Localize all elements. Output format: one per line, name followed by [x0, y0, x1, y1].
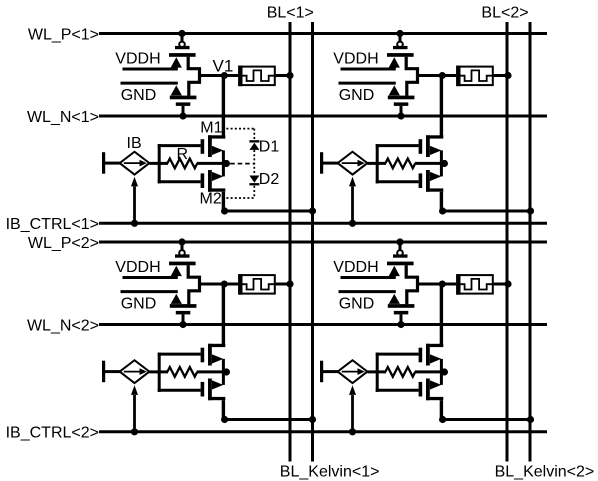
wire M2 drain to BL_Kelvin (R2C2)	[443, 418, 531, 421]
transistor M2 (R2C2)	[419, 372, 444, 401]
wire gate bracket vertical (R2C1)	[158, 353, 161, 392]
svg-text:VDDH: VDDH	[115, 51, 160, 68]
resistor R (R2C2)	[367, 367, 444, 377]
wire gate bracket to M1 gate (R2C2)	[376, 353, 419, 356]
memristor RRAM element (R2C1)	[224, 274, 290, 295]
wire WL_P to PMOS gate (R2C1)	[181, 242, 184, 251]
junction node on BL_Kelvin (R2C2)	[527, 416, 534, 423]
current source IB (R1C1)	[102, 152, 149, 175]
svg-text:WL_P<1>: WL_P<1>	[28, 26, 99, 43]
resistor R (R1C2)	[367, 159, 444, 169]
current source IB (R1C2)	[320, 152, 367, 175]
wire gate bracket to M1 gate (R2C1)	[158, 353, 201, 356]
GND supply wire (R2C1)	[121, 292, 178, 313]
junction node on WL_N (R1C1)	[179, 112, 186, 119]
transistor NMOS pull-down (R1C2)	[388, 85, 415, 106]
wire IB_CTRL to current source (arrow) (R1C2)	[349, 177, 356, 224]
svg-text:WL_N<2>: WL_N<2>	[27, 317, 99, 334]
wire V1 down to M1 drain (R2C1)	[222, 284, 225, 346]
junction node on WL_P (R1C2)	[396, 30, 403, 37]
svg-text:VDDH: VDDH	[333, 259, 378, 276]
wire WL_P to PMOS gate (R1C2)	[399, 34, 402, 43]
node M1/M2 source junction (R2C1)	[223, 368, 230, 375]
svg-text:WL_P<2>: WL_P<2>	[28, 235, 99, 252]
transistor PMOS pull-up (R1C2)	[387, 42, 414, 68]
junction node on WL_N (R2C2)	[397, 321, 404, 328]
wordline IB_CTRL<2>	[6, 425, 547, 442]
wire gate bracket vertical (R1C1)	[158, 144, 161, 183]
transistor PMOS pull-up (R1C1)	[169, 42, 196, 68]
svg-text:BL<1>: BL<1>	[267, 4, 314, 21]
bitline BL<1>	[289, 22, 292, 462]
transistor M2 (R1C2)	[419, 163, 444, 192]
VDDH supply wire (R1C2)	[333, 51, 396, 69]
junction node on BL_Kelvin (R1C1)	[309, 207, 316, 214]
GND supply wire (R1C2)	[339, 83, 396, 104]
svg-text:R: R	[177, 146, 189, 163]
transistor M1 (R2C1)	[201, 344, 226, 373]
wire driver drains to output node (R2C1)	[188, 265, 199, 304]
wire output node to V1 (R2C1)	[200, 283, 225, 286]
wire IB_CTRL to current source (arrow) (R1C1)	[131, 177, 138, 224]
VDDH supply wire (R2C1)	[115, 259, 178, 277]
junction node on WL_P (R2C1)	[178, 238, 185, 245]
wordline WL_N<2>	[27, 317, 547, 334]
wire gate bracket to M1 gate (R1C1)	[158, 144, 201, 147]
current source IB (R2C2)	[320, 360, 367, 383]
svg-text:GND: GND	[339, 296, 375, 313]
wordline WL_P<2>	[28, 235, 547, 252]
wire dotted branch vertical	[253, 129, 255, 198]
node M2 drain (R2C1)	[221, 416, 228, 423]
resistor R (R2C1)	[149, 367, 226, 377]
transistor M1 (R1C2)	[419, 135, 444, 164]
wire M2 drain down (R1C2)	[440, 192, 443, 211]
wire WL_P to PMOS gate (R1C1)	[181, 34, 184, 43]
junction node on BL_Kelvin (R2C1)	[309, 416, 316, 423]
wire driver drains to output node (R1C2)	[406, 57, 417, 96]
wire driver drains to output node (R1C1)	[188, 57, 199, 96]
bitline BL<2>	[506, 22, 509, 462]
transistor M2 (R2C1)	[201, 372, 226, 401]
node M2 drain (R1C2)	[439, 207, 446, 214]
node V1 (R1C1)	[221, 72, 228, 79]
svg-text:GND: GND	[121, 296, 157, 313]
junction node on WL_N (R2C1)	[179, 321, 186, 328]
current source IB (R2C1)	[102, 360, 149, 383]
svg-text:M2: M2	[200, 190, 222, 207]
node V1 (R1C2)	[439, 72, 446, 79]
junction node on IB_CTRL (R1C1)	[131, 220, 138, 227]
wire M2 drain to BL_Kelvin (R2C1)	[225, 418, 313, 421]
wire NMOS gate to WL_N (R1C2)	[400, 106, 403, 116]
junction node memristor-BL (R1C2)	[504, 72, 511, 79]
node M2 drain (R1C1)	[221, 207, 228, 214]
GND supply wire (R2C2)	[339, 292, 396, 313]
wordline WL_N<1>	[27, 109, 547, 126]
wire dotted branch top	[226, 128, 254, 130]
wire M2 drain down (R2C2)	[440, 400, 443, 419]
node M1/M2 source junction (R1C2)	[441, 160, 448, 167]
svg-text:GND: GND	[339, 87, 375, 104]
transistor NMOS pull-down (R2C2)	[388, 294, 415, 315]
node M2 drain (R2C2)	[439, 416, 446, 423]
junction node on WL_P (R2C2)	[396, 238, 403, 245]
wire V1 down to M1 drain (R1C2)	[440, 76, 443, 138]
junction node on WL_P (R1C1)	[178, 30, 185, 37]
wire NMOS gate to WL_N (R2C1)	[182, 314, 185, 324]
wire gate bracket to M2 gate (R2C2)	[376, 389, 419, 392]
wordline IB_CTRL<1>	[6, 216, 547, 233]
wordline WL_P<1>	[28, 26, 547, 43]
wire M2 drain down (R1C1)	[222, 192, 225, 211]
wire M2 drain to BL_Kelvin (R1C1)	[225, 210, 313, 213]
transistor M1 (R1C1)	[201, 135, 226, 164]
diode D1	[249, 140, 259, 150]
wire gate bracket vertical (R1C2)	[376, 144, 379, 183]
junction node memristor-BL (R2C1)	[286, 280, 293, 287]
svg-text:M1: M1	[200, 120, 222, 137]
svg-text:VDDH: VDDH	[115, 259, 160, 276]
junction node on IB_CTRL (R2C1)	[131, 428, 138, 435]
wire IB_CTRL to current source (arrow) (R2C2)	[349, 385, 356, 432]
junction node on IB_CTRL (R2C2)	[349, 428, 356, 435]
node V1 (R2C1)	[221, 281, 228, 288]
svg-text:IB: IB	[127, 135, 142, 152]
wire WL_P to PMOS gate (R2C2)	[399, 242, 402, 251]
bitline BL_Kelvin<2>	[529, 22, 532, 462]
svg-text:VDDH: VDDH	[333, 51, 378, 68]
node V1 (R2C2)	[439, 281, 446, 288]
bitline BL_Kelvin<1>	[311, 22, 314, 462]
wire gate bracket to M2 gate (R1C1)	[158, 180, 201, 183]
wire dotted branch bottom	[226, 197, 254, 199]
wire driver drains to output node (R2C2)	[406, 265, 417, 304]
wire gate bracket to M1 gate (R1C2)	[376, 144, 419, 147]
svg-text:BL_Kelvin<1>: BL_Kelvin<1>	[280, 464, 380, 481]
wire output node to V1 (R1C2)	[418, 74, 443, 77]
junction node on IB_CTRL (R1C2)	[349, 220, 356, 227]
memristor RRAM element (R2C2)	[442, 274, 508, 295]
GND supply wire (R1C1)	[121, 83, 178, 104]
svg-text:V1: V1	[213, 56, 234, 75]
junction node on BL_Kelvin (R1C2)	[527, 207, 534, 214]
junction node memristor-BL (R2C2)	[504, 280, 511, 287]
memristor RRAM element (R1C1)	[224, 66, 290, 87]
memristor RRAM element (R1C2)	[442, 66, 508, 87]
diode D2	[249, 176, 259, 186]
wire gate bracket to M2 gate (R1C2)	[376, 180, 419, 183]
svg-text:GND: GND	[121, 87, 157, 104]
junction node memristor-BL (R1C1)	[286, 72, 293, 79]
wire gate bracket to M2 gate (R2C1)	[158, 389, 201, 392]
wire output node to V1 (R2C2)	[418, 283, 443, 286]
wire IB_CTRL to current source (arrow) (R2C1)	[131, 385, 138, 432]
svg-text:BL<2>: BL<2>	[481, 4, 528, 21]
transistor NMOS pull-down (R1C1)	[170, 85, 197, 106]
wire NMOS gate to WL_N (R2C2)	[400, 314, 403, 324]
wire V1 down to M1 drain (R1C1)	[222, 76, 225, 138]
svg-text:WL_N<1>: WL_N<1>	[27, 109, 99, 126]
VDDH supply wire (R1C1)	[115, 51, 178, 69]
wire gate bracket vertical (R2C2)	[376, 353, 379, 392]
node M1/M2 source junction (R1C1)	[223, 160, 230, 167]
transistor NMOS pull-down (R2C1)	[170, 294, 197, 315]
svg-text:BL_Kelvin<2>: BL_Kelvin<2>	[495, 464, 595, 481]
wire NMOS gate to WL_N (R1C1)	[182, 106, 185, 116]
svg-text:D2: D2	[259, 171, 280, 188]
wire M2 drain down (R2C1)	[222, 400, 225, 419]
wire M2 drain to BL_Kelvin (R1C2)	[443, 210, 531, 213]
wire output node to V1 (R1C1)	[200, 74, 225, 77]
svg-text:IB_CTRL<2>: IB_CTRL<2>	[6, 425, 99, 442]
transistor PMOS pull-up (R2C2)	[387, 250, 414, 276]
wire dashed center tap	[230, 163, 254, 165]
transistor M1 (R2C2)	[419, 344, 444, 373]
junction node on WL_N (R1C2)	[397, 112, 404, 119]
transistor M2 (R1C1)	[201, 163, 226, 192]
VDDH supply wire (R2C2)	[333, 259, 396, 277]
resistor R (R1C1)	[149, 159, 226, 169]
svg-text:IB_CTRL<1>: IB_CTRL<1>	[6, 216, 99, 233]
svg-text:D1: D1	[259, 138, 280, 155]
transistor PMOS pull-up (R2C1)	[169, 250, 196, 276]
wire V1 down to M1 drain (R2C2)	[440, 284, 443, 346]
node M1/M2 source junction (R2C2)	[441, 368, 448, 375]
